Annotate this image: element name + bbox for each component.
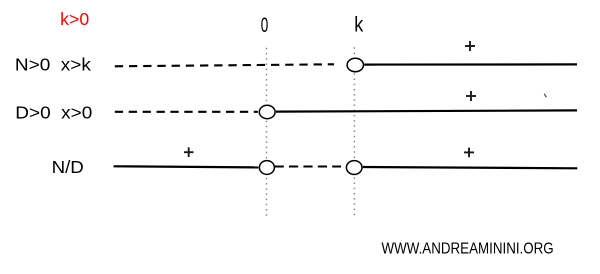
node circle N at k — [347, 58, 363, 71]
wire D dashed segment (negative region) — [115, 111, 258, 113]
plus sign N/D right — [464, 148, 474, 158]
svg-text:WWW.ANDREAMININI.ORG: WWW.ANDREAMININI.ORG — [382, 240, 554, 257]
wire N/D solid left segment — [114, 166, 259, 167]
plus sign N/D left — [184, 147, 194, 157]
svg-text:N>0 x>k: N>0 x>k — [15, 55, 91, 75]
svg-text:k: k — [354, 12, 363, 36]
node circle D at 0 — [259, 105, 275, 118]
plus sign row D — [466, 91, 476, 101]
plus sign row N — [465, 41, 475, 51]
wire N dashed segment (negative region) — [115, 64, 334, 66]
wire N solid segment (positive region) — [364, 63, 577, 65]
svg-text:D>0 x>0: D>0 x>0 — [15, 103, 92, 123]
stray tick mark — [544, 94, 546, 97]
node circle N/D at k — [346, 161, 362, 175]
svg-text:0: 0 — [261, 14, 269, 37]
wire N/D dashed middle segment — [275, 165, 341, 167]
dotted guide line at 0 — [266, 48, 268, 218]
svg-text:k>0: k>0 — [60, 9, 89, 29]
svg-text:N/D: N/D — [52, 157, 84, 177]
node circle N/D at 0 — [259, 161, 274, 175]
wire N/D solid right segment — [363, 167, 578, 168]
wire D solid segment (positive region) — [276, 110, 577, 111]
dotted guide line at k — [353, 47, 355, 218]
